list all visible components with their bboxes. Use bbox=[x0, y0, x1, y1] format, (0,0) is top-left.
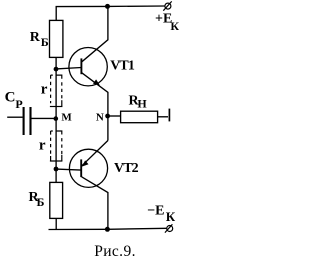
svg-text:М: М bbox=[61, 112, 72, 124]
svg-text:VT1: VT1 bbox=[110, 58, 135, 73]
svg-text:Н: Н bbox=[137, 97, 147, 111]
svg-text:r: r bbox=[39, 137, 46, 153]
svg-text:VT2: VT2 bbox=[114, 161, 139, 176]
svg-text:К: К bbox=[166, 209, 176, 224]
svg-text:N: N bbox=[96, 112, 104, 124]
svg-text:Б: Б bbox=[41, 35, 49, 49]
svg-text:Р: Р bbox=[15, 97, 22, 111]
svg-text:C: C bbox=[5, 90, 16, 106]
svg-text:Б: Б bbox=[37, 195, 45, 209]
svg-text:R: R bbox=[30, 30, 41, 45]
svg-text:К: К bbox=[170, 19, 179, 33]
svg-text:Рис.9.: Рис.9. bbox=[94, 243, 136, 260]
svg-text:r: r bbox=[41, 81, 48, 97]
svg-text:−E: −E bbox=[147, 203, 164, 218]
